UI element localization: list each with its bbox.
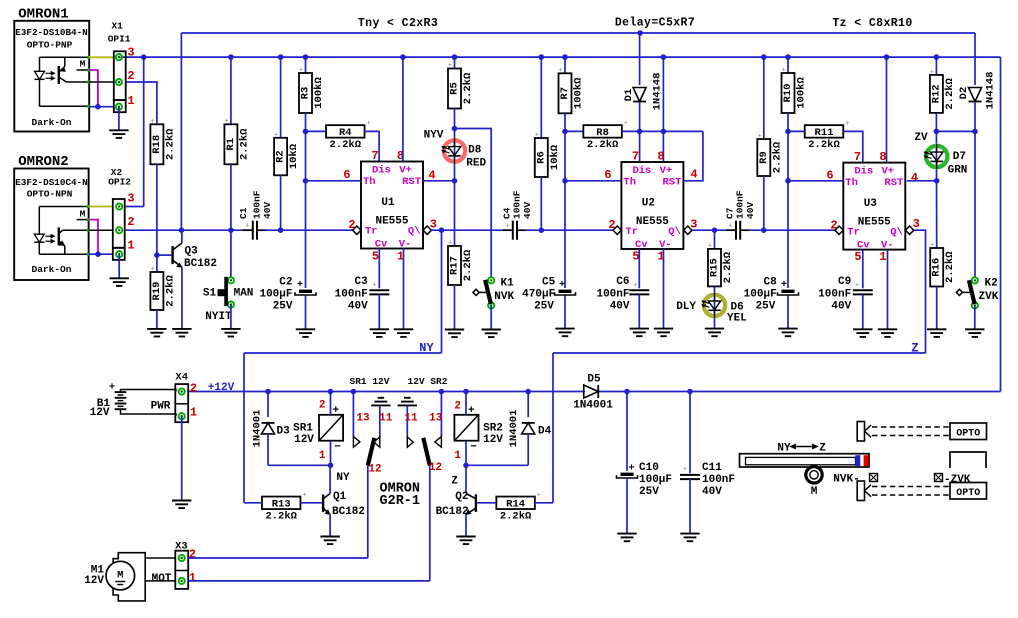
svg-text:C1: C1 (238, 207, 249, 219)
svg-text:X3: X3 (175, 541, 188, 553)
svg-text:Dis: Dis (372, 165, 391, 177)
svg-text:2.2kΩ: 2.2kΩ (808, 139, 840, 151)
svg-text:D7: D7 (953, 151, 966, 163)
svg-text:25V: 25V (639, 486, 659, 498)
svg-text:Q1: Q1 (333, 491, 347, 503)
svg-text:40V: 40V (262, 202, 273, 219)
svg-text:Q\: Q\ (890, 227, 903, 239)
svg-text:NE555: NE555 (858, 217, 891, 229)
svg-text:ZVK: ZVK (979, 291, 999, 303)
svg-text:40V: 40V (702, 486, 722, 498)
svg-text:2.2kΩ: 2.2kΩ (722, 251, 734, 283)
svg-text:MOT: MOT (152, 573, 172, 585)
svg-text:100µF: 100µF (259, 289, 292, 301)
svg-text:470µF: 470µF (522, 289, 555, 301)
svg-text:C10: C10 (639, 462, 659, 474)
svg-text:BC182: BC182 (436, 506, 469, 518)
svg-text:+: + (708, 242, 712, 250)
svg-text:Q3: Q3 (185, 246, 199, 258)
svg-text:NE555: NE555 (636, 216, 669, 228)
svg-text:R4: R4 (339, 127, 352, 139)
svg-text:25V: 25V (756, 300, 776, 312)
svg-text:2: 2 (454, 400, 461, 412)
svg-text:+: + (559, 280, 565, 291)
svg-text:1N4001: 1N4001 (251, 410, 263, 448)
svg-text:100nF: 100nF (511, 190, 522, 219)
svg-text:R15: R15 (709, 258, 721, 277)
svg-text:4: 4 (911, 171, 918, 185)
svg-text:SR2: SR2 (483, 422, 503, 434)
svg-text:7: 7 (371, 149, 378, 163)
svg-text:Th: Th (845, 177, 858, 189)
svg-text:D1: D1 (623, 89, 635, 102)
svg-text:NVK: NVK (494, 291, 514, 303)
svg-text:11: 11 (404, 413, 418, 425)
svg-text:-ZVK: -ZVK (944, 474, 971, 486)
svg-text:YEL: YEL (727, 313, 747, 325)
svg-text:Q\: Q\ (668, 226, 681, 238)
svg-text:2: 2 (189, 548, 196, 562)
svg-text:+: + (302, 492, 306, 500)
svg-text:X4: X4 (175, 372, 188, 384)
svg-text:+: + (372, 282, 376, 290)
svg-text:Dis: Dis (854, 166, 873, 178)
svg-text:1: 1 (319, 450, 326, 462)
svg-text:+: + (728, 223, 732, 231)
svg-text:1: 1 (127, 238, 134, 252)
svg-text:12V: 12V (90, 407, 110, 419)
svg-text:D4: D4 (538, 426, 552, 438)
svg-text:13: 13 (356, 413, 370, 425)
svg-text:G2R-1: G2R-1 (380, 494, 421, 509)
svg-text:+: + (558, 67, 562, 75)
svg-text:U3: U3 (864, 198, 878, 210)
svg-text:+: + (781, 280, 787, 291)
svg-text:2.2kΩ: 2.2kΩ (587, 139, 619, 151)
svg-text:M: M (117, 570, 123, 582)
svg-text:+: + (274, 131, 278, 139)
svg-text:D5: D5 (587, 374, 601, 386)
svg-text:+: + (537, 492, 541, 500)
svg-text:1: 1 (190, 406, 197, 420)
svg-text:OPTO: OPTO (956, 429, 980, 440)
svg-text:+: + (366, 120, 370, 128)
svg-text:PWR: PWR (151, 401, 171, 413)
svg-text:100kΩ: 100kΩ (313, 77, 325, 109)
svg-text:+: + (930, 242, 934, 250)
svg-text:Q\: Q\ (408, 226, 421, 238)
svg-text:Dis: Dis (632, 165, 651, 177)
svg-text:OPTO-PNP: OPTO-PNP (27, 40, 73, 51)
svg-text:+: + (332, 405, 339, 417)
svg-text:GRN: GRN (948, 165, 968, 177)
svg-text:+: + (468, 405, 475, 417)
svg-text:5: 5 (372, 250, 379, 264)
svg-text:2.2kΩ: 2.2kΩ (265, 511, 297, 523)
svg-text:R10: R10 (782, 84, 794, 103)
svg-text:100nF: 100nF (251, 190, 262, 219)
svg-text:NY: NY (777, 443, 791, 455)
svg-text:+: + (448, 240, 452, 248)
svg-text:V+: V+ (399, 165, 412, 177)
svg-text:V+: V+ (660, 165, 673, 177)
svg-text:Delay=C5xR7: Delay=C5xR7 (615, 17, 695, 30)
svg-text:R3: R3 (300, 87, 312, 100)
svg-text:2.2kΩ: 2.2kΩ (462, 249, 474, 281)
svg-text:+: + (299, 67, 303, 75)
svg-text:Th: Th (363, 176, 376, 188)
svg-text:3: 3 (127, 191, 134, 205)
svg-text:40V: 40V (610, 301, 630, 313)
svg-text:2.2kΩ: 2.2kΩ (164, 275, 176, 307)
svg-text:100kΩ: 100kΩ (573, 77, 585, 109)
svg-text:+: + (448, 62, 452, 70)
svg-text:40V: 40V (348, 301, 368, 313)
svg-text:+: + (297, 280, 303, 291)
svg-text:SR1: SR1 (293, 422, 313, 434)
svg-text:NE555: NE555 (375, 216, 408, 228)
svg-text:2: 2 (319, 399, 326, 411)
svg-text:1: 1 (189, 571, 196, 585)
svg-text:Tz < C8xR10: Tz < C8xR10 (832, 17, 912, 30)
svg-text:12V: 12V (84, 575, 104, 587)
svg-text:DLY: DLY (676, 301, 696, 313)
svg-text:+: + (628, 464, 634, 475)
svg-text:S1: S1 (203, 287, 217, 299)
svg-text:OMRON2: OMRON2 (18, 154, 68, 170)
svg-text:U2: U2 (642, 198, 655, 210)
svg-text:NVK-: NVK- (833, 474, 859, 486)
svg-text:6: 6 (604, 168, 611, 182)
svg-text:M: M (80, 208, 86, 219)
svg-text:K2: K2 (985, 277, 998, 289)
svg-text:OPI2: OPI2 (108, 176, 131, 187)
svg-text:2: 2 (190, 381, 197, 395)
svg-text:RST: RST (662, 177, 681, 189)
svg-text:7: 7 (632, 150, 639, 164)
svg-text:R13: R13 (272, 499, 291, 511)
svg-text:Z: Z (911, 342, 919, 356)
svg-text:100nF: 100nF (735, 190, 746, 219)
svg-text:Tr: Tr (365, 226, 378, 238)
svg-text:U1: U1 (381, 197, 395, 209)
svg-text:BC182: BC182 (332, 506, 365, 518)
svg-text:1N4001: 1N4001 (508, 410, 520, 448)
svg-text:12: 12 (429, 462, 442, 474)
svg-text:8: 8 (879, 150, 886, 164)
svg-text:C6: C6 (616, 276, 629, 288)
svg-text:R17: R17 (449, 256, 461, 275)
svg-text:C3: C3 (354, 276, 368, 288)
svg-text:Q2: Q2 (455, 491, 468, 503)
svg-text:100nF: 100nF (596, 289, 629, 301)
svg-text:RED: RED (466, 158, 486, 170)
svg-text:2.2kΩ: 2.2kΩ (238, 128, 250, 160)
svg-text:2.2kΩ: 2.2kΩ (330, 139, 362, 151)
svg-text:−: − (334, 442, 341, 454)
svg-text:R12: R12 (930, 84, 942, 103)
svg-text:+: + (757, 133, 761, 141)
svg-text:Dark-On: Dark-On (32, 264, 72, 275)
svg-text:12V SR2: 12V SR2 (408, 376, 448, 387)
svg-text:R8: R8 (596, 127, 609, 139)
svg-text:R19: R19 (151, 282, 163, 301)
svg-text:2.2kΩ: 2.2kΩ (164, 128, 176, 160)
svg-text:+: + (150, 118, 154, 126)
svg-text:Z: Z (451, 476, 458, 488)
svg-text:OPTO-NPN: OPTO-NPN (27, 189, 73, 200)
svg-text:R1: R1 (225, 138, 237, 151)
svg-text:1: 1 (454, 450, 461, 462)
svg-text:Z: Z (819, 443, 826, 455)
svg-text:M: M (811, 486, 818, 498)
svg-text:100µF: 100µF (639, 474, 672, 486)
svg-text:40V: 40V (522, 202, 533, 219)
svg-text:+: + (781, 67, 785, 75)
svg-text:D2: D2 (958, 87, 970, 100)
svg-text:12V: 12V (294, 434, 314, 446)
svg-text:C5: C5 (542, 277, 556, 289)
svg-text:R14: R14 (506, 499, 525, 511)
svg-text:25V: 25V (534, 300, 554, 312)
svg-text:R9: R9 (758, 151, 770, 164)
svg-text:12: 12 (368, 464, 381, 476)
svg-text:E3F2-DS10C4-N: E3F2-DS10C4-N (15, 177, 88, 188)
svg-text:V+: V+ (881, 166, 894, 178)
svg-text:R2: R2 (275, 150, 287, 163)
svg-text:+: + (245, 223, 249, 231)
svg-text:ZV: ZV (914, 132, 928, 144)
svg-text:C11: C11 (702, 462, 722, 474)
svg-text:2.2kΩ: 2.2kΩ (771, 141, 783, 173)
svg-text:6: 6 (343, 168, 350, 182)
svg-text:1N4001: 1N4001 (573, 400, 613, 412)
svg-text:Tr: Tr (625, 226, 638, 238)
svg-text:100nF: 100nF (335, 289, 368, 301)
svg-text:+: + (683, 466, 687, 474)
svg-text:8: 8 (657, 150, 664, 164)
svg-text:11: 11 (379, 413, 393, 425)
svg-text:R5: R5 (449, 82, 461, 95)
svg-text:D3: D3 (277, 426, 291, 438)
svg-text:1N4148: 1N4148 (985, 72, 997, 110)
svg-text:100µF: 100µF (744, 289, 777, 301)
svg-text:1N4148: 1N4148 (652, 73, 664, 111)
svg-text:2.2kΩ: 2.2kΩ (944, 77, 956, 109)
svg-text:2: 2 (127, 69, 134, 83)
svg-text:10kΩ: 10kΩ (549, 144, 561, 170)
svg-text:R6: R6 (535, 151, 547, 164)
svg-text:Tny < C2xR3: Tny < C2xR3 (358, 17, 438, 30)
svg-text:Th: Th (623, 177, 636, 189)
svg-text:OPTO: OPTO (956, 488, 980, 499)
svg-text:1: 1 (127, 94, 134, 108)
svg-text:2.2kΩ: 2.2kΩ (462, 72, 474, 104)
svg-text:SR1 12V: SR1 12V (350, 376, 390, 387)
svg-text:NYIT: NYIT (205, 311, 232, 323)
svg-text:3: 3 (127, 45, 134, 59)
svg-text:4: 4 (690, 168, 697, 182)
svg-text:C2: C2 (279, 277, 292, 289)
svg-text:R11: R11 (815, 127, 834, 139)
svg-text:C8: C8 (763, 277, 777, 289)
svg-text:40V: 40V (831, 301, 851, 313)
svg-text:MAN: MAN (234, 287, 254, 299)
svg-text:2.2kΩ: 2.2kΩ (500, 511, 532, 523)
svg-text:R18: R18 (151, 135, 163, 154)
svg-text:+12V: +12V (208, 382, 235, 394)
svg-text:13: 13 (429, 413, 443, 425)
svg-text:NY: NY (419, 341, 434, 355)
svg-text:BC182: BC182 (184, 258, 217, 270)
svg-text:−: − (470, 442, 477, 454)
svg-text:100nF: 100nF (702, 474, 735, 486)
svg-text:100nF: 100nF (818, 289, 851, 301)
svg-text:12V: 12V (483, 434, 503, 446)
svg-text:R16: R16 (931, 258, 943, 277)
svg-text:RST: RST (402, 176, 421, 188)
svg-text:D8: D8 (468, 145, 482, 157)
svg-text:3: 3 (913, 217, 920, 231)
svg-text:R7: R7 (559, 87, 571, 100)
svg-text:10kΩ: 10kΩ (288, 143, 300, 169)
svg-text:2: 2 (127, 215, 134, 229)
svg-text:C9: C9 (838, 276, 851, 288)
svg-text:K1: K1 (501, 277, 515, 289)
svg-text:E3F2-DS10B4-N: E3F2-DS10B4-N (15, 27, 88, 38)
svg-text:40V: 40V (745, 202, 756, 219)
svg-text:+: + (930, 68, 934, 76)
svg-text:25V: 25V (273, 300, 293, 312)
svg-text:1: 1 (879, 250, 886, 264)
svg-text:7: 7 (854, 150, 861, 164)
svg-text:Dark-On: Dark-On (32, 117, 72, 128)
svg-text:OMRON1: OMRON1 (18, 7, 68, 23)
svg-text:2.2kΩ: 2.2kΩ (944, 251, 956, 283)
svg-text:+: + (633, 282, 637, 290)
svg-text:+: + (845, 120, 849, 128)
svg-text:RST: RST (884, 177, 903, 189)
svg-text:+: + (224, 118, 228, 126)
svg-text:+: + (855, 282, 859, 290)
svg-text:NYV: NYV (424, 130, 444, 142)
svg-text:+: + (150, 266, 154, 274)
svg-text:+: + (624, 120, 628, 128)
svg-text:+: + (505, 223, 509, 231)
svg-text:M: M (80, 59, 86, 70)
svg-text:NY: NY (336, 472, 350, 484)
svg-text:5: 5 (854, 250, 861, 264)
svg-text:OPI1: OPI1 (108, 33, 131, 44)
svg-text:+: + (535, 132, 539, 140)
svg-text:X1: X1 (111, 21, 123, 32)
svg-text:+: + (109, 383, 115, 394)
svg-text:Tr: Tr (847, 227, 860, 239)
svg-text:100kΩ: 100kΩ (796, 77, 808, 109)
